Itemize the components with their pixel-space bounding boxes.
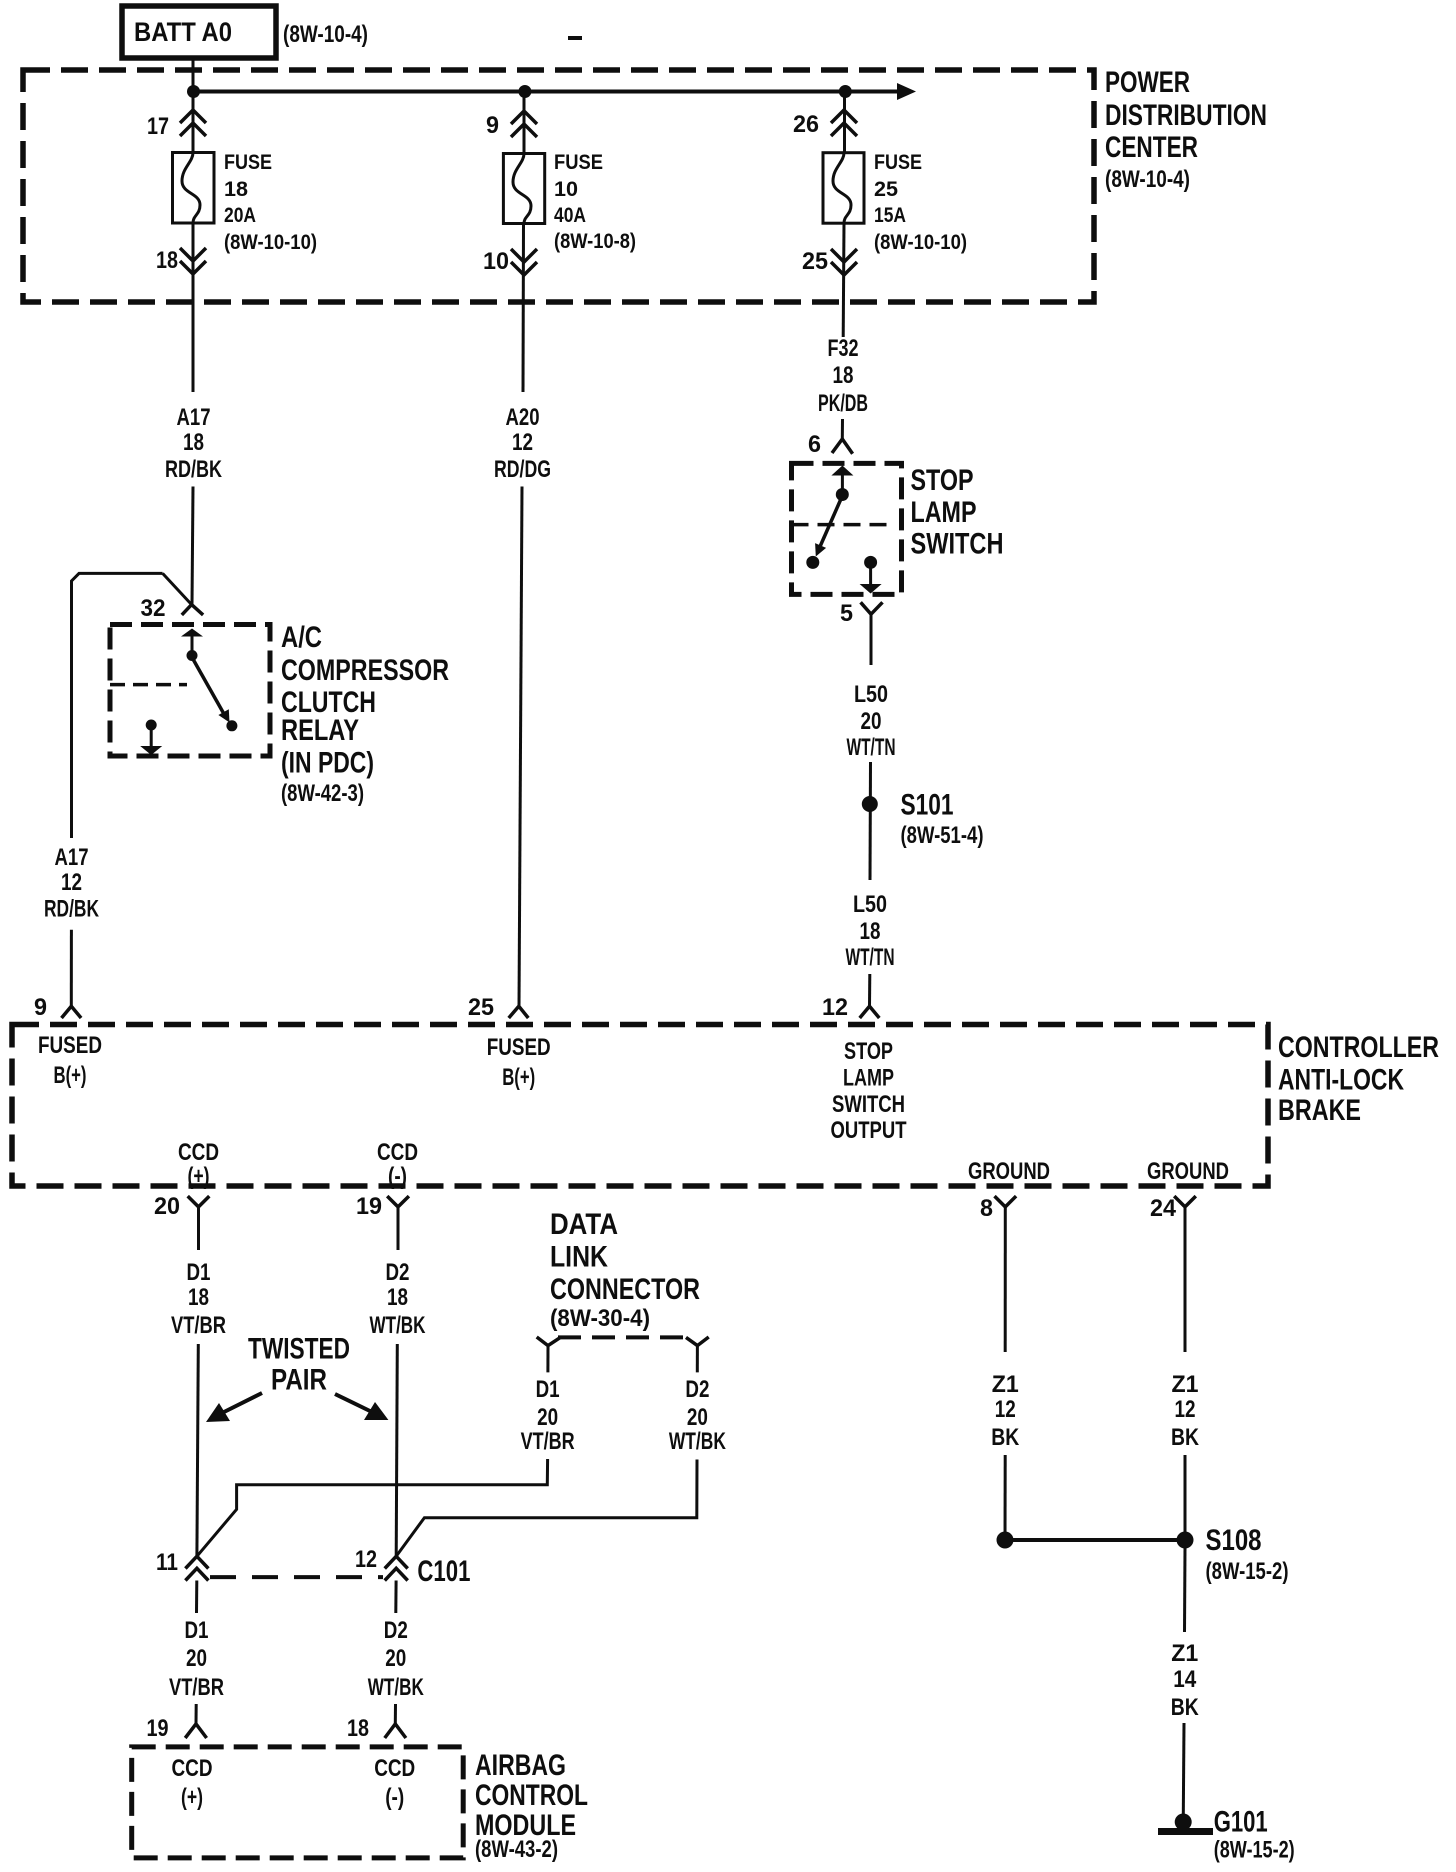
splice node S108: [1177, 1532, 1194, 1549]
svg-text:VT/BR: VT/BR: [521, 1428, 575, 1455]
splice node S101: [862, 796, 878, 812]
svg-text:18: 18: [188, 1284, 209, 1311]
svg-text:Z1: Z1: [992, 1371, 1019, 1398]
TWISTED PAIR note: [248, 1333, 350, 1397]
svg-text:25: 25: [468, 994, 494, 1021]
svg-text:STOP: STOP: [844, 1038, 893, 1065]
switch output arrow shaft: [869, 566, 872, 585]
twisted pair left arrowhead: [206, 1403, 230, 1422]
svg-text:D1: D1: [536, 1376, 560, 1403]
svg-text:6: 6: [808, 431, 821, 458]
junction node at fuse 25 tap: [839, 85, 852, 98]
svg-text:CCD: CCD: [172, 1755, 213, 1782]
svg-text:FUSE: FUSE: [224, 151, 272, 174]
bus wire across PDC: [193, 90, 898, 94]
CCD (-) terminal label: [377, 1139, 418, 1190]
svg-text:18: 18: [347, 1715, 369, 1742]
switch blade arrowhead: [815, 543, 826, 556]
svg-text:9: 9: [34, 994, 47, 1021]
svg-text:(8W-15-2): (8W-15-2): [1214, 1837, 1295, 1864]
svg-text:D1: D1: [185, 1617, 209, 1644]
svg-text:8: 8: [980, 1195, 993, 1222]
connector chevrons pin 26: [831, 110, 857, 136]
CCD (+) terminal label: [178, 1139, 219, 1190]
wire label L50 20 WT/TN: [847, 681, 896, 761]
connector fork pin 20: [188, 1196, 210, 1207]
FUSE 18 20A value label: [224, 151, 317, 254]
svg-text:WT/TN: WT/TN: [846, 944, 895, 971]
svg-text:18: 18: [183, 429, 204, 456]
svg-text:25: 25: [874, 178, 898, 201]
connector chevrons pin 11: [185, 1556, 208, 1580]
svg-text:ANTI-LOCK: ANTI-LOCK: [1278, 1064, 1404, 1097]
svg-text:12: 12: [355, 1546, 377, 1573]
svg-text:PAIR: PAIR: [271, 1364, 327, 1397]
fuse F10 element wave: [513, 154, 531, 224]
stop lamp switch dashed box: [792, 463, 902, 594]
svg-text:CENTER: CENTER: [1105, 131, 1198, 164]
wire DLC D1 run to C101 pin 11: [197, 1459, 548, 1556]
wire below fuse 25: [842, 223, 846, 337]
wire branch to relay: horizontal run: [72, 573, 163, 838]
svg-text:(8W-42-3): (8W-42-3): [281, 780, 364, 807]
wire label D1 20 VT/BR at DLC: [521, 1376, 575, 1455]
relay pivot contact dot: [187, 650, 198, 661]
fuse F25 element wave: [833, 153, 851, 224]
svg-text:25: 25: [802, 248, 828, 275]
connector chevrons pin 18: [180, 248, 206, 274]
fuse F18 body: [173, 153, 215, 224]
svg-text:17: 17: [147, 113, 169, 140]
connector chevrons pin 25: [831, 249, 857, 275]
svg-text:20: 20: [186, 1645, 207, 1672]
wire Z1 left to splice S108: [1004, 1455, 1007, 1540]
svg-text:F32: F32: [828, 335, 859, 362]
CCD (+) terminal label at ACM: [172, 1755, 213, 1811]
ground G101 dot: [1175, 1814, 1192, 1831]
svg-text:(8W-30-4): (8W-30-4): [550, 1305, 650, 1332]
FUSE 25 15A value label: [874, 151, 967, 254]
wire D1 down to C101 pin 11: [197, 1344, 198, 1556]
svg-text:(8W-10-10): (8W-10-10): [224, 231, 317, 254]
svg-text:DATA: DATA: [550, 1208, 618, 1241]
relay input arrow pin 32: [181, 629, 203, 637]
wire F32 below label: [841, 419, 844, 439]
wire CCD- from pin 19: [397, 1207, 400, 1250]
controller anti-lock brake dashed box: [12, 1025, 1268, 1187]
svg-text:A17: A17: [177, 404, 211, 431]
connector fork pin 9: [62, 1006, 82, 1018]
svg-text:B(+): B(+): [54, 1062, 87, 1089]
svg-text:FUSE: FUSE: [554, 151, 603, 174]
wire D2 down to C101 pin 12: [396, 1344, 397, 1556]
svg-text:(8W-43-2): (8W-43-2): [475, 1836, 558, 1863]
svg-text:FUSED: FUSED: [487, 1034, 551, 1061]
twisted pair left arrow: [220, 1393, 262, 1414]
svg-text:18: 18: [860, 918, 881, 945]
svg-text:20: 20: [861, 708, 882, 735]
wire Z1 14 BK down to ground G101: [1182, 1723, 1186, 1815]
svg-text:10: 10: [554, 178, 578, 201]
wire D1 into ACM pin 19: [195, 1704, 198, 1724]
svg-text:(8W-10-8): (8W-10-8): [554, 230, 636, 253]
airbag control module dashed box: [132, 1747, 464, 1858]
wire DLC D2 stem: [696, 1346, 699, 1373]
wire L50 down to CAB pin 12: [868, 974, 871, 1006]
wire A17 below label: [192, 487, 193, 605]
connector fork pin 32: [182, 605, 203, 615]
wire label Z1 12 BK right: [1171, 1371, 1200, 1451]
svg-text:20: 20: [537, 1404, 558, 1431]
svg-text:(8W-15-2): (8W-15-2): [1206, 1558, 1289, 1585]
svg-text:20: 20: [385, 1645, 406, 1672]
wire label D2 18 WT/BK: [370, 1259, 426, 1339]
svg-text:CCD: CCD: [377, 1139, 418, 1166]
connector fork pin 19 ACM: [185, 1724, 206, 1738]
svg-text:24: 24: [1150, 1195, 1177, 1222]
svg-text:CCD: CCD: [178, 1139, 219, 1166]
connector chevrons pin 9: [511, 111, 537, 137]
wire label F32 18 PK/DB: [818, 335, 868, 417]
svg-text:(+): (+): [181, 1784, 203, 1811]
svg-text:10: 10: [483, 248, 509, 275]
svg-text:BK: BK: [1171, 1424, 1200, 1451]
wire D2 below C101: [394, 1581, 397, 1614]
svg-text:A20: A20: [506, 404, 540, 431]
ground G101 bar: [1158, 1828, 1213, 1835]
svg-text:12: 12: [995, 1396, 1016, 1423]
POWER DISTRIBUTION CENTER label: [1105, 66, 1267, 193]
wire label D1 20 VT/BR lower: [169, 1617, 224, 1701]
svg-text:LAMP: LAMP: [911, 496, 977, 529]
wire branch diagonal into pin 32: [163, 573, 192, 604]
svg-text:BK: BK: [1171, 1694, 1200, 1721]
switch lower-left contact dot: [806, 556, 819, 569]
svg-text:(+): (+): [188, 1163, 210, 1190]
connector fork pin 6: [832, 439, 853, 454]
connector fork pin 19: [387, 1196, 409, 1207]
svg-text:12: 12: [61, 869, 82, 896]
svg-text:LAMP: LAMP: [843, 1065, 894, 1092]
switch input arrow pin 6: [831, 466, 853, 476]
svg-text:CONTROL: CONTROL: [475, 1779, 588, 1812]
relay blade: [194, 660, 225, 714]
junction node at fuse 10 tap: [518, 85, 531, 98]
wire label A17 12 RD/BK: [44, 844, 99, 923]
switch internal mechanical dashed line: [792, 523, 895, 527]
svg-text:C101: C101: [417, 1555, 470, 1588]
relay internal mechanical dashed line: [110, 683, 187, 687]
svg-text:A/C: A/C: [281, 621, 322, 654]
svg-text:20A: 20A: [224, 204, 256, 227]
svg-text:VT/BR: VT/BR: [171, 1312, 226, 1339]
wire below S108: [1183, 1548, 1187, 1632]
svg-text:GROUND: GROUND: [1147, 1158, 1229, 1185]
svg-text:D2: D2: [685, 1376, 709, 1403]
twisted pair right arrowhead: [364, 1402, 388, 1420]
svg-text:40A: 40A: [554, 204, 586, 227]
fuse F10 body: [503, 154, 544, 224]
CCD (-) terminal label at ACM: [374, 1755, 415, 1811]
wire ground Z1 right from pin 24: [1184, 1207, 1187, 1352]
wire bus tap down to fuse 10: [523, 92, 526, 154]
switch output contact dot: [864, 556, 877, 569]
svg-text:RD/BK: RD/BK: [165, 456, 222, 483]
svg-text:WT/BK: WT/BK: [370, 1312, 426, 1339]
CONTROLLER ANTI-LOCK BRAKE label: [1278, 1031, 1439, 1127]
connector fork pin 24: [1174, 1196, 1196, 1207]
svg-text:18: 18: [387, 1284, 408, 1311]
switch input arrow shaft: [841, 473, 844, 490]
svg-text:D2: D2: [386, 1259, 410, 1286]
svg-text:(8W-51-4): (8W-51-4): [901, 822, 984, 849]
wire label L50 18 WT/TN: [846, 891, 895, 971]
junction node at fuse 18 tap: [187, 85, 200, 98]
svg-text:BATT A0: BATT A0: [134, 17, 232, 47]
wire label D2 20 WT/BK at DLC: [669, 1376, 726, 1455]
wire label A20 12 RD/DG: [494, 404, 551, 483]
svg-text:(8W-10-4): (8W-10-4): [1105, 166, 1190, 193]
svg-text:BK: BK: [991, 1424, 1020, 1451]
svg-text:B(+): B(+): [502, 1064, 535, 1091]
svg-text:12: 12: [512, 429, 533, 456]
svg-text:20: 20: [687, 1404, 708, 1431]
fuse F25 body: [823, 153, 864, 224]
FUSE 10 40A value label: [554, 151, 636, 253]
svg-text:CONTROLLER: CONTROLLER: [1278, 1031, 1439, 1064]
svg-text:18: 18: [224, 178, 248, 201]
connector fork pin 12: [860, 1006, 880, 1018]
svg-text:G101: G101: [1214, 1806, 1268, 1839]
wire ground Z1 left from pin 8: [1004, 1207, 1007, 1352]
wire below fuse 10: [522, 224, 526, 393]
switch pivot contact dot: [836, 488, 849, 501]
C101 connector dashed line: [210, 1575, 383, 1579]
fuse F18 element wave: [182, 153, 200, 224]
wire L50 to splice: [869, 762, 873, 880]
wire D2 into ACM pin 18: [394, 1704, 397, 1724]
switch blade: [819, 500, 841, 550]
connector chevrons pin 12 C101: [385, 1556, 408, 1580]
wire A20 below label down to CAB pin 25: [519, 487, 522, 1007]
svg-text:LINK: LINK: [550, 1241, 608, 1274]
wire label Z1 14 BK: [1171, 1640, 1200, 1721]
bus arrowhead: [897, 83, 916, 100]
connector fork DLC D1: [537, 1337, 561, 1346]
connector chevrons pin 17: [180, 110, 206, 136]
wire below fuse 18: [192, 223, 195, 392]
svg-text:12: 12: [1175, 1396, 1196, 1423]
wire from pin 5: [870, 614, 873, 665]
svg-text:TWISTED: TWISTED: [248, 1333, 350, 1366]
svg-text:BRAKE: BRAKE: [1278, 1094, 1361, 1127]
svg-text:12: 12: [822, 994, 848, 1021]
wire from BATT A0 into PDC: [192, 58, 195, 92]
relay output arrowhead: [140, 746, 162, 755]
relay output arrow shaft: [150, 728, 153, 747]
svg-text:18: 18: [833, 362, 854, 389]
svg-text:26: 26: [793, 111, 819, 138]
svg-text:5: 5: [840, 600, 853, 627]
connector fork pin 25: [509, 1006, 529, 1018]
svg-text:D2: D2: [384, 1617, 408, 1644]
wire label D2 20 WT/BK lower: [368, 1617, 424, 1701]
svg-text:A17: A17: [55, 844, 89, 871]
svg-text:WT/BK: WT/BK: [669, 1428, 726, 1455]
svg-text:19: 19: [356, 1193, 382, 1220]
wire DLC D1 stem: [546, 1346, 549, 1373]
FUSED B(+) terminal label left: [38, 1032, 102, 1089]
svg-text:DISTRIBUTION: DISTRIBUTION: [1105, 99, 1267, 132]
switch output arrowhead: [860, 584, 882, 594]
svg-text:SWITCH: SWITCH: [832, 1091, 905, 1118]
svg-text:POWER: POWER: [1105, 66, 1190, 99]
svg-text:RELAY: RELAY: [281, 714, 359, 747]
twisted pair right arrow: [335, 1394, 372, 1412]
data link connector dashed link line: [558, 1335, 689, 1339]
svg-text:(-): (-): [385, 1784, 404, 1811]
svg-text:19: 19: [147, 1715, 169, 1742]
STOP LAMP SWITCH label: [911, 464, 1004, 561]
wire D1 below C101: [195, 1581, 198, 1614]
svg-text:Z1: Z1: [1171, 1640, 1198, 1667]
svg-text:SWITCH: SWITCH: [911, 528, 1004, 561]
svg-text:(IN PDC): (IN PDC): [281, 747, 374, 780]
battery feed label box BATT A0: [122, 6, 276, 58]
svg-text:PK/DB: PK/DB: [818, 390, 868, 417]
svg-text:20: 20: [154, 1193, 180, 1220]
AIRBAG CONTROL MODULE label: [475, 1749, 588, 1863]
svg-text:CCD: CCD: [374, 1755, 415, 1782]
svg-text:WT/TN: WT/TN: [847, 734, 896, 761]
svg-text:STOP: STOP: [911, 464, 974, 497]
connector fork pin 18 ACM: [385, 1724, 406, 1738]
svg-text:VT/BR: VT/BR: [169, 1674, 224, 1701]
relay lower-right contact dot: [226, 720, 237, 731]
svg-text:11: 11: [156, 1549, 178, 1576]
A/C compressor clutch relay dashed box: [110, 625, 270, 757]
svg-text:RD/BK: RD/BK: [44, 896, 99, 923]
svg-text:Z1: Z1: [1172, 1371, 1199, 1398]
relay blade arrowhead: [218, 709, 229, 722]
svg-text:(8W-10-10): (8W-10-10): [874, 231, 967, 254]
svg-text:(8W-10-4): (8W-10-4): [283, 21, 368, 48]
svg-text:9: 9: [486, 112, 499, 139]
svg-text:FUSED: FUSED: [38, 1032, 102, 1059]
relay input arrow shaft: [191, 634, 194, 651]
svg-text:18: 18: [156, 247, 178, 274]
svg-text:COMPRESSOR: COMPRESSOR: [281, 654, 449, 687]
splice link wire between grounds: [1005, 1538, 1185, 1542]
svg-text:FUSE: FUSE: [874, 151, 922, 174]
wire label A17 18 RD/BK: [165, 404, 222, 483]
svg-text:GROUND: GROUND: [968, 1158, 1050, 1185]
svg-text:OUTPUT: OUTPUT: [831, 1117, 907, 1144]
svg-text:14: 14: [1173, 1666, 1197, 1693]
wire label D1 18 VT/BR: [171, 1259, 226, 1339]
svg-text:CONNECTOR: CONNECTOR: [550, 1273, 700, 1306]
svg-text:WT/BK: WT/BK: [368, 1674, 424, 1701]
svg-text:(-): (-): [388, 1163, 407, 1190]
svg-text:32: 32: [141, 595, 166, 622]
svg-text:D1: D1: [187, 1259, 211, 1286]
splice dot left: [997, 1532, 1014, 1549]
svg-text:15A: 15A: [874, 204, 906, 227]
wire A17 down to CAB pin 9: [70, 930, 73, 1007]
connector chevrons pin 10: [511, 249, 537, 275]
DATA LINK CONNECTOR label: [550, 1208, 700, 1332]
connector fork pin 5: [861, 602, 883, 614]
connector fork pin 8: [995, 1196, 1017, 1207]
wire bus tap down to fuse 18: [192, 92, 195, 153]
STOP LAMP SWITCH OUTPUT terminal label: [831, 1038, 907, 1144]
wire Z1 right to splice S108: [1184, 1455, 1187, 1540]
svg-text:L50: L50: [853, 891, 887, 918]
connector fork DLC D2: [686, 1337, 709, 1346]
svg-text:RD/DG: RD/DG: [494, 456, 551, 483]
power distribution center dashed box: [23, 70, 1094, 302]
svg-text:S101: S101: [901, 789, 954, 822]
A/C COMPRESSOR CLUTCH RELAY label: [281, 621, 449, 807]
svg-text:L50: L50: [854, 681, 888, 708]
scan speck artifact: [568, 36, 582, 40]
wire CCD+ from pin 20: [197, 1207, 200, 1250]
FUSED B(+) terminal label middle: [487, 1034, 551, 1091]
wire DLC D2 run to C101 pin 12: [396, 1460, 697, 1557]
relay fixed contact dot: [146, 720, 157, 731]
wire label Z1 12 BK left: [991, 1371, 1020, 1451]
svg-text:AIRBAG: AIRBAG: [475, 1749, 566, 1782]
wire bus tap down to fuse 25: [843, 92, 846, 153]
svg-text:S108: S108: [1206, 1524, 1262, 1557]
